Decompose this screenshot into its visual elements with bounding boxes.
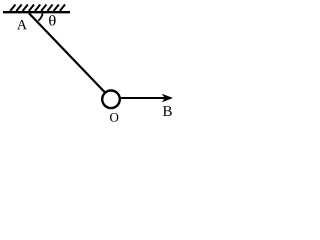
label theta — [49, 15, 56, 25]
label B — [163, 106, 172, 116]
ceiling line — [3, 11, 70, 13]
arrowhead — [162, 94, 173, 102]
label O — [110, 113, 118, 122]
string (wire from ceiling point A region to ball O) — [29, 13, 106, 93]
arrow line to B — [119, 97, 167, 99]
ball O — [102, 91, 120, 109]
ceiling hatch marks — [10, 5, 65, 12]
angle arc — [38, 13, 42, 20]
label A — [17, 20, 27, 29]
